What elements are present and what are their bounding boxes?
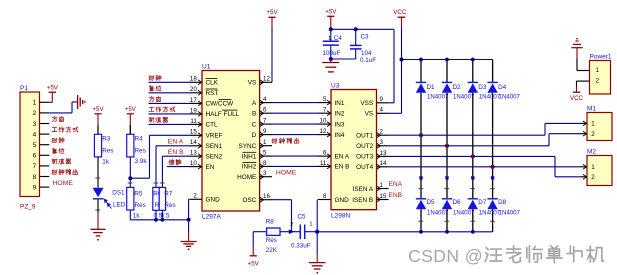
wire A to IN1	[272, 102, 318, 104]
U1 pin 12 VS	[248, 76, 272, 87]
svg-text:11: 11	[190, 118, 197, 125]
junction bottom rail D5	[419, 230, 423, 234]
wire CTL net	[149, 123, 190, 125]
U1 pin 16 OSC	[242, 193, 272, 204]
svg-text:M2: M2	[587, 148, 596, 155]
svg-text:VS: VS	[365, 111, 374, 118]
svg-text:2: 2	[193, 193, 197, 200]
svg-text:EN: EN	[206, 164, 215, 171]
svg-text:EN A: EN A	[168, 139, 184, 146]
diode column D3/D7	[472, 60, 474, 83]
svg-text:EN B: EN B	[335, 164, 350, 171]
U1 pin 20 RST	[190, 86, 219, 97]
net label pin 8	[52, 169, 77, 174]
connector M2	[580, 148, 612, 185]
svg-text:Res: Res	[266, 237, 277, 244]
svg-text:15: 15	[380, 193, 387, 200]
junction bottom rail node	[315, 230, 319, 234]
svg-text:OUT2: OUT2	[356, 143, 373, 150]
svg-text:LED: LED	[113, 201, 126, 208]
junction motor phase 4	[490, 165, 494, 169]
wire D3 anode down	[471, 93, 474, 180]
svg-text:D: D	[252, 132, 257, 139]
svg-text:U3: U3	[331, 82, 340, 89]
svg-text:R5: R5	[134, 190, 143, 197]
svg-text:10: 10	[320, 118, 327, 125]
connector M1	[580, 105, 612, 140]
svg-text:100uF: 100uF	[323, 50, 341, 57]
svg-text:P1: P1	[20, 85, 28, 92]
net label 方向	[149, 96, 160, 101]
svg-text:1N4007: 1N4007	[453, 93, 475, 100]
svg-text:8: 8	[323, 193, 327, 200]
U1 pin 4 A	[252, 96, 272, 107]
svg-text:4: 4	[33, 131, 37, 138]
wire R4 to R5 / VREF junction	[128, 157, 133, 188]
net label HOME at U1	[276, 170, 297, 177]
svg-text:CSDN @: CSDN @	[408, 246, 483, 266]
svg-text:Res: Res	[102, 148, 113, 155]
svg-text:1k: 1k	[102, 159, 110, 166]
junction OSC node	[289, 229, 295, 234]
diode D7 1N4007	[468, 178, 501, 217]
svg-text:0.33uF: 0.33uF	[291, 242, 311, 249]
svg-text:PZ_9: PZ_9	[20, 204, 36, 211]
U3 pin 8 GND	[318, 193, 349, 204]
svg-text:VREF: VREF	[206, 133, 223, 140]
net label EN A	[168, 139, 184, 146]
svg-text:22K: 22K	[266, 247, 278, 254]
svg-text:A: A	[252, 100, 257, 107]
svg-text:VS: VS	[248, 80, 257, 87]
wire bottom diode rail	[317, 231, 492, 233]
svg-text:Res: Res	[135, 148, 146, 155]
ground below LED	[91, 229, 106, 240]
U1 pin 9 D	[252, 128, 272, 139]
svg-text:7: 7	[323, 107, 327, 114]
diode D8 1N4007	[487, 178, 520, 217]
svg-text:C: C	[252, 121, 257, 128]
svg-text:OUT3: OUT3	[356, 154, 373, 161]
wire C to IN3	[272, 123, 318, 125]
svg-text:1N4007: 1N4007	[479, 209, 501, 216]
svg-text:IN3: IN3	[335, 121, 345, 128]
svg-text:14: 14	[190, 139, 197, 146]
svg-text:D4: D4	[498, 84, 507, 91]
resistor R7 0.5	[159, 156, 175, 219]
net label pin 7	[52, 159, 70, 164]
net label pin 6	[52, 148, 64, 153]
wire OUT4 to M2 pin1	[389, 166, 580, 168]
svg-text:C5: C5	[298, 214, 307, 221]
svg-text:ISEN A: ISEN A	[353, 186, 374, 193]
svg-text:SEN2: SEN2	[206, 154, 223, 161]
svg-text:U1: U1	[202, 63, 211, 70]
net label ENA	[389, 181, 403, 188]
capacitor C5 0.33uF	[290, 214, 317, 250]
ground under C4	[322, 63, 339, 72]
svg-text:+5V: +5V	[47, 84, 59, 91]
wire D6 anode to rail	[444, 209, 449, 232]
svg-text:D5: D5	[427, 199, 436, 206]
junction bottom rail D6	[445, 230, 449, 234]
svg-text:6: 6	[33, 153, 37, 160]
wire D5 anode to rail	[418, 209, 423, 232]
svg-text:2: 2	[591, 131, 595, 138]
wire D1 anode down	[419, 93, 422, 180]
svg-text:IN2: IN2	[335, 111, 345, 118]
wire sense resistor bottoms rail	[130, 210, 188, 221]
svg-text:M1: M1	[587, 105, 596, 112]
U3 pin 9 VSS	[360, 96, 388, 107]
resistor R4 3.9k	[127, 125, 148, 165]
ground below U1	[181, 242, 197, 251]
svg-text:8: 8	[263, 160, 267, 167]
wire CW/CCW net	[149, 102, 190, 104]
svg-text:1: 1	[591, 121, 595, 128]
U3 pin 10 IN3	[318, 118, 345, 129]
power +5V at C4	[325, 9, 337, 30]
wire D4 anode down	[491, 93, 494, 180]
wire OSC to RC	[272, 200, 292, 232]
U1 pin 18 CLK	[190, 76, 219, 87]
diode column D1/D5	[420, 60, 422, 83]
net label pin 4	[52, 127, 78, 132]
wire D to IN4	[272, 134, 318, 136]
svg-text:CTL: CTL	[206, 122, 219, 129]
net label ENB	[389, 192, 403, 199]
net label RST 复位	[149, 86, 161, 91]
U3 pin 15 ISEN B	[352, 193, 388, 204]
svg-text:Power1: Power1	[590, 53, 612, 60]
svg-text:12: 12	[263, 76, 270, 83]
svg-text:ENB: ENB	[389, 192, 403, 199]
resistor R5 1k	[127, 187, 146, 219]
svg-text:OUT4: OUT4	[356, 164, 373, 171]
svg-text:C3: C3	[361, 33, 370, 40]
power VCC label at Power1	[570, 92, 584, 102]
svg-text:2: 2	[290, 222, 293, 228]
power +5V down at R8	[248, 232, 260, 268]
svg-text:5: 5	[323, 96, 327, 103]
svg-text:INH2: INH2	[242, 164, 257, 171]
svg-text:1N4007: 1N4007	[427, 93, 449, 100]
wire INH1 to EN A	[272, 155, 318, 157]
net label SYNC 时钟输出	[272, 138, 299, 143]
junction top rail D3	[471, 58, 475, 62]
svg-text:EN A: EN A	[335, 153, 350, 160]
svg-text:R4: R4	[135, 136, 144, 143]
svg-text:4: 4	[380, 107, 384, 114]
svg-text:15: 15	[190, 129, 197, 136]
diode D1 1N4007	[416, 82, 449, 100]
svg-text:VSS: VSS	[360, 100, 373, 107]
svg-text:9: 9	[380, 96, 384, 103]
net label HOME	[53, 180, 74, 187]
wire OUT1 to M1 pin1	[389, 123, 580, 135]
junction C4 top	[329, 27, 333, 31]
svg-text:D6: D6	[453, 199, 462, 206]
svg-text:16: 16	[263, 193, 270, 200]
wire INH2 to EN B	[272, 165, 318, 167]
U1 pin 2 GND	[190, 193, 221, 204]
svg-text:2: 2	[591, 174, 595, 181]
U1 pin 3 HOME	[237, 170, 272, 181]
svg-text:6: 6	[323, 150, 327, 157]
svg-text:17: 17	[190, 97, 197, 104]
svg-text:VCC: VCC	[393, 9, 407, 16]
svg-text:1N4007: 1N4007	[499, 93, 521, 100]
svg-text:3: 3	[263, 170, 267, 177]
U3 pin 14 OUT4	[356, 160, 388, 171]
svg-text:R8: R8	[266, 219, 275, 226]
svg-text:GND: GND	[206, 197, 221, 204]
wire U1 GND down	[188, 199, 190, 242]
svg-text:+5V: +5V	[92, 106, 104, 113]
svg-text:1: 1	[596, 67, 600, 74]
svg-text:SYNC: SYNC	[239, 143, 257, 150]
svg-text:1N4007: 1N4007	[427, 209, 449, 216]
svg-text:1: 1	[263, 139, 267, 146]
wire Power1 pin1 to earth	[577, 48, 584, 71]
junction top rail D1	[419, 58, 423, 62]
svg-text:+5V: +5V	[248, 260, 260, 267]
connector Power1	[584, 53, 612, 94]
svg-text:B: B	[252, 111, 256, 118]
wire Power1 pin2 to VCC	[577, 81, 584, 92]
junction bottom rail D7	[471, 230, 475, 234]
U1 pin 13 SEN2	[190, 150, 223, 161]
junction C3 top	[354, 27, 358, 31]
svg-text:104: 104	[361, 50, 372, 57]
svg-text:CLK: CLK	[206, 80, 219, 87]
U1 pin 7 C	[252, 118, 272, 129]
junction motor phase 1	[419, 133, 423, 137]
svg-text:INH1: INH1	[242, 153, 257, 160]
junction motor phase 2	[445, 144, 449, 148]
svg-text:18: 18	[190, 76, 197, 83]
svg-text:1: 1	[591, 164, 595, 171]
net label CLK 时钟	[149, 75, 161, 80]
wire SEN2 to R7	[162, 155, 189, 157]
diode D5 1N4007	[416, 178, 449, 217]
svg-text:13: 13	[380, 150, 387, 157]
svg-text:1N4007: 1N4007	[453, 209, 475, 216]
power VCC	[393, 9, 407, 60]
svg-text:RST: RST	[206, 90, 219, 97]
svg-text:+5V: +5V	[325, 9, 337, 16]
junction C4 bottom	[329, 57, 333, 61]
wire VCC to VS pin 4	[389, 60, 402, 114]
svg-text:3: 3	[33, 121, 37, 128]
svg-text:GND: GND	[335, 197, 350, 204]
diode D6 1N4007	[442, 178, 475, 217]
svg-text:HOME: HOME	[276, 170, 297, 177]
wire VREF to divider	[130, 135, 189, 178]
wire VCC diode rail	[402, 59, 493, 61]
net label EN B	[168, 149, 184, 156]
U1 pin 5 INH1	[242, 150, 272, 161]
svg-text:SEN1: SEN1	[206, 143, 223, 150]
wire OUT2 to M1 pin2	[389, 134, 580, 146]
U1 pin 11 CTL	[190, 118, 219, 129]
svg-text:HOME: HOME	[53, 180, 74, 187]
U3 pin 7 IN2	[318, 107, 345, 118]
svg-text:1: 1	[328, 36, 331, 42]
U1 pin 8 INH2	[242, 160, 272, 171]
wire OUT3 to M2 pin2	[389, 156, 580, 176]
U1 pin 17 CW/CCW	[190, 97, 235, 108]
wire HALF/FULL net	[149, 113, 190, 115]
net label 工作方式	[149, 107, 175, 112]
svg-text:2: 2	[596, 77, 600, 84]
wire D7 anode to rail	[470, 209, 475, 232]
power +5V at R4	[125, 106, 137, 134]
resistor R3 1k	[94, 125, 113, 166]
wire RST net	[149, 92, 190, 94]
diode D2 1N4007	[442, 82, 475, 100]
U1 pin 6 B	[252, 107, 272, 118]
U1 pin 19 HALF FULL	[190, 107, 240, 118]
svg-text:HOME: HOME	[237, 174, 256, 181]
junction top rail D2	[445, 58, 449, 62]
wire D8 anode to rail	[490, 209, 495, 232]
wire U3 GND down	[316, 200, 318, 232]
svg-text:+5V: +5V	[266, 9, 278, 16]
driver chip U3 L298N	[331, 82, 377, 219]
diode D4 1N4007	[487, 82, 520, 100]
junction VREF node	[128, 176, 132, 180]
wire +5V rail	[331, 29, 394, 103]
svg-text:8: 8	[33, 174, 37, 181]
wire bottom rail to ground	[316, 232, 318, 263]
svg-text:4: 4	[263, 96, 267, 103]
U3 pin 6 EN A	[318, 150, 350, 161]
U3 pin 3 OUT2	[356, 139, 388, 150]
earth ground (sideways bars)	[78, 95, 86, 109]
svg-text:HALF FULL: HALF FULL	[206, 111, 240, 118]
svg-text:IN1: IN1	[335, 100, 345, 107]
svg-text:D7: D7	[478, 199, 487, 206]
svg-text:1k: 1k	[133, 212, 141, 219]
svg-text:D8: D8	[498, 199, 507, 206]
U1 pin 10 EN	[190, 160, 215, 171]
svg-text:5: 5	[33, 142, 37, 149]
net label pin 3	[52, 116, 63, 121]
svg-text:L297A: L297A	[202, 214, 221, 221]
svg-text:IN4: IN4	[335, 132, 345, 139]
svg-text:1: 1	[310, 222, 313, 228]
wire CLK net	[149, 81, 190, 83]
svg-text:Res: Res	[164, 202, 175, 209]
svg-text:14: 14	[380, 160, 387, 167]
junction VCC rail	[400, 58, 404, 62]
junction GND node	[187, 218, 191, 222]
U3 pin 12 IN4	[318, 128, 345, 139]
U3 pin 11 EN B	[318, 160, 349, 171]
svg-text:20: 20	[190, 86, 197, 93]
svg-text:L298N: L298N	[331, 213, 350, 220]
svg-text:1N4007: 1N4007	[499, 209, 521, 216]
svg-text:5: 5	[263, 150, 267, 157]
capacitor C3 0.1uF	[331, 29, 376, 64]
svg-text:D2: D2	[453, 84, 462, 91]
op-chip U1 L297A	[202, 63, 260, 220]
svg-text:D3: D3	[478, 84, 487, 91]
junction motor phase 3	[471, 154, 475, 158]
watermark CSDN	[408, 246, 605, 268]
resistor R8 22K	[253, 219, 291, 254]
svg-text:VCC: VCC	[570, 95, 584, 102]
wire SEN1 to R6	[156, 145, 190, 147]
svg-text:11: 11	[320, 160, 327, 167]
net label 使能	[169, 159, 181, 164]
svg-text:OUT1: OUT1	[356, 133, 373, 140]
svg-text:10: 10	[190, 160, 197, 167]
svg-text:1N4007: 1N4007	[479, 93, 501, 100]
svg-text:0.1uF: 0.1uF	[360, 57, 376, 64]
LED DS1	[93, 188, 126, 209]
svg-text:Res: Res	[135, 202, 146, 209]
power +5V at U1 VS	[266, 9, 278, 82]
U3 pin 2 OUT1	[356, 129, 388, 140]
svg-text:2: 2	[33, 110, 37, 117]
ground below U3	[309, 263, 326, 274]
svg-text:ISEN B: ISEN B	[352, 197, 373, 204]
svg-text:12: 12	[320, 128, 327, 135]
svg-text:9: 9	[263, 128, 267, 135]
svg-text:R7: R7	[164, 190, 173, 197]
svg-text:C4: C4	[334, 35, 343, 42]
diode column D2/D6	[446, 60, 448, 83]
svg-text:6: 6	[263, 107, 267, 114]
net label pin 5	[52, 138, 64, 143]
wire LED to ground	[95, 200, 100, 230]
wire R3 to LED	[95, 157, 100, 188]
U3 pin 13 OUT3	[356, 150, 388, 161]
svg-text:19: 19	[190, 107, 197, 114]
svg-text:OSC: OSC	[242, 197, 256, 204]
wire P1 pin 2 to earth ground	[49, 102, 77, 113]
svg-text:CW/CCW: CW/CCW	[206, 101, 235, 108]
earth symbol at Power1	[571, 38, 583, 48]
power +5V at R3	[92, 106, 104, 134]
net label 斩波器	[149, 117, 167, 122]
svg-text:13: 13	[190, 150, 197, 157]
wire EN net	[167, 166, 190, 168]
diode column D4/D8	[492, 60, 494, 83]
wire to ground under C4	[330, 59, 332, 62]
svg-text:7: 7	[263, 118, 267, 125]
power +5V at P1 pin 1	[47, 84, 59, 102]
resistor R6 0.5	[153, 146, 166, 220]
svg-text:9: 9	[33, 184, 37, 191]
svg-text:ENA: ENA	[389, 181, 403, 188]
wire D2 anode down	[445, 93, 448, 180]
svg-text:3.9k: 3.9k	[135, 158, 148, 165]
svg-text:D1: D1	[427, 84, 436, 91]
U1 pin 1 SYNC	[239, 139, 272, 150]
svg-text:R3: R3	[102, 136, 111, 143]
U3 pin 4 VS	[365, 107, 389, 118]
U1 pin 14 SEN1	[190, 139, 223, 150]
U3 pin 5 IN1	[318, 96, 345, 107]
svg-text:1: 1	[33, 100, 37, 107]
svg-text:EN B: EN B	[168, 149, 184, 156]
U3 pin 1 ISEN A	[353, 182, 389, 193]
diode D3 1N4007	[468, 82, 501, 100]
capacitor C4 100uF	[323, 29, 343, 59]
